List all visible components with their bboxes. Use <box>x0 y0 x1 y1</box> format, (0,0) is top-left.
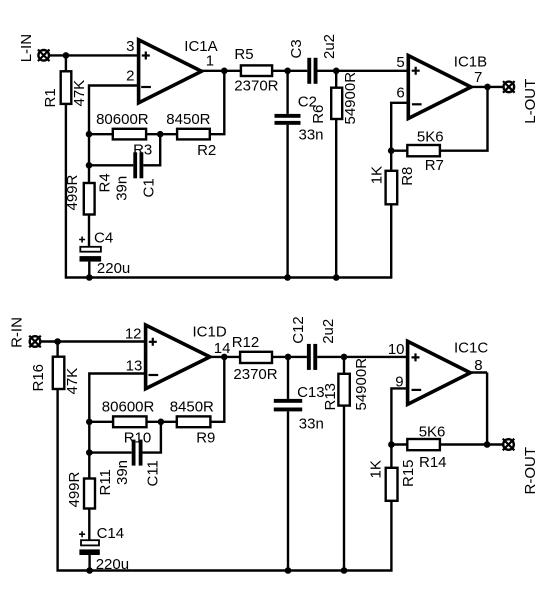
svg-text:7: 7 <box>474 69 482 86</box>
svg-text:R8: R8 <box>399 167 416 186</box>
svg-text:47K: 47K <box>71 80 88 107</box>
svg-text:C3: C3 <box>288 39 305 58</box>
svg-text:1: 1 <box>206 53 214 70</box>
svg-text:6: 6 <box>396 84 404 101</box>
svg-text:R4: R4 <box>97 173 114 192</box>
svg-text:33n: 33n <box>299 126 324 143</box>
svg-text:R13: R13 <box>322 383 339 411</box>
svg-text:C1: C1 <box>141 178 158 197</box>
svg-text:5K6: 5K6 <box>417 128 444 145</box>
svg-text:R-IN: R-IN <box>9 317 26 348</box>
svg-text:R14: R14 <box>419 454 447 471</box>
svg-text:R16: R16 <box>30 364 47 392</box>
svg-text:2370R: 2370R <box>233 366 277 383</box>
svg-text:1K: 1K <box>367 460 384 478</box>
svg-text:14: 14 <box>214 340 231 357</box>
svg-text:R12: R12 <box>232 334 260 351</box>
svg-text:13: 13 <box>126 358 143 375</box>
svg-text:33n: 33n <box>299 416 324 433</box>
svg-text:220u: 220u <box>97 260 130 277</box>
svg-text:R5: R5 <box>234 46 253 63</box>
svg-text:R11: R11 <box>97 469 114 495</box>
svg-text:80600R: 80600R <box>96 111 149 128</box>
svg-text:L-IN: L-IN <box>18 34 35 62</box>
svg-text:220u: 220u <box>96 556 129 573</box>
svg-text:R1: R1 <box>42 88 59 107</box>
svg-text:39n: 39n <box>114 460 131 485</box>
svg-text:IC1B: IC1B <box>454 53 487 70</box>
svg-text:C13: C13 <box>297 384 325 401</box>
svg-text:499R: 499R <box>64 174 81 210</box>
svg-text:2u2: 2u2 <box>320 319 337 344</box>
svg-text:R6: R6 <box>310 105 327 124</box>
svg-text:8450R: 8450R <box>166 111 210 128</box>
svg-text:L-OUT: L-OUT <box>522 79 537 124</box>
svg-text:R10: R10 <box>124 430 152 447</box>
svg-text:R15: R15 <box>400 459 417 487</box>
svg-text:54900R: 54900R <box>353 358 370 411</box>
svg-text:IC1C: IC1C <box>454 339 488 356</box>
svg-text:2: 2 <box>126 68 134 85</box>
svg-text:R2: R2 <box>197 142 216 159</box>
svg-text:10: 10 <box>388 341 405 358</box>
svg-text:54900R: 54900R <box>342 72 359 125</box>
svg-text:C4: C4 <box>94 230 113 247</box>
svg-text:5K6: 5K6 <box>419 423 446 440</box>
svg-text:2u2: 2u2 <box>321 34 338 59</box>
svg-text:R9: R9 <box>196 430 215 447</box>
svg-text:R7: R7 <box>425 157 444 174</box>
svg-text:2370R: 2370R <box>234 78 278 95</box>
svg-text:3: 3 <box>126 38 134 55</box>
svg-text:80600R: 80600R <box>102 399 155 416</box>
svg-text:R3: R3 <box>133 142 152 159</box>
svg-text:C12: C12 <box>290 316 307 344</box>
svg-text:1K: 1K <box>369 166 386 184</box>
svg-text:12: 12 <box>125 326 142 343</box>
svg-text:8: 8 <box>474 357 482 374</box>
svg-text:499R: 499R <box>66 471 83 507</box>
svg-text:39n: 39n <box>113 176 130 201</box>
svg-text:IC1D: IC1D <box>193 323 227 340</box>
svg-text:R-OUT: R-OUT <box>522 447 537 495</box>
svg-text:C14: C14 <box>97 525 125 542</box>
svg-text:8450R: 8450R <box>170 399 214 416</box>
svg-text:9: 9 <box>395 374 403 391</box>
svg-text:47K: 47K <box>64 368 81 395</box>
svg-text:5: 5 <box>396 54 404 71</box>
svg-text:C11: C11 <box>145 460 162 486</box>
